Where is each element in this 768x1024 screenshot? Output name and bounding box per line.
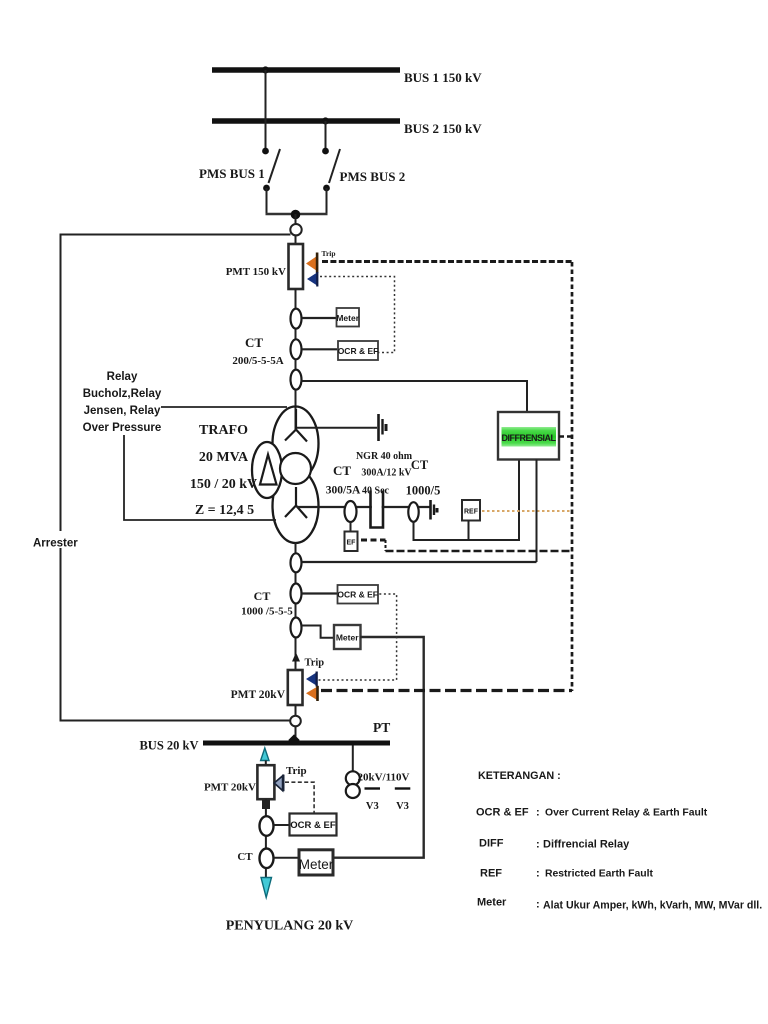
svg-text::: :: [536, 839, 540, 851]
svg-text:Meter: Meter: [477, 897, 507, 909]
svg-text:20kV/110V: 20kV/110V: [358, 772, 410, 784]
svg-text:CT: CT: [411, 458, 429, 472]
svg-text:Over Current Relay & Earth Fau: Over Current Relay & Earth Fault: [545, 808, 708, 819]
svg-text:300A/12 kV: 300A/12 kV: [361, 468, 412, 479]
svg-text:DIFFRENSIAL: DIFFRENSIAL: [502, 433, 557, 443]
svg-text:CT: CT: [333, 463, 351, 478]
svg-text:CT: CT: [254, 589, 271, 603]
svg-text:TRAFO: TRAFO: [199, 423, 248, 438]
svg-text:PMS BUS 2: PMS BUS 2: [340, 169, 406, 184]
svg-text:EF: EF: [347, 540, 357, 547]
svg-text:Meter: Meter: [336, 633, 359, 643]
svg-text:PMT 20kV: PMT 20kV: [204, 782, 256, 794]
svg-text:REF: REF: [464, 509, 479, 516]
svg-text:OCR & EF: OCR & EF: [476, 807, 529, 819]
svg-text:Alat Ukur Amper, kWh, kVarh, M: Alat Ukur Amper, kWh, kVarh, MW, MVar dl…: [543, 900, 762, 912]
svg-text:OCR & EF: OCR & EF: [337, 589, 378, 599]
svg-text:1000 /5-5-5: 1000 /5-5-5: [241, 606, 293, 618]
svg-text:KETERANGAN :: KETERANGAN :: [478, 770, 561, 782]
svg-text:Bucholz,Relay: Bucholz,Relay: [83, 388, 162, 400]
svg-text:Meter: Meter: [336, 313, 359, 323]
svg-text:Restricted Earth Fault: Restricted Earth Fault: [545, 869, 654, 880]
svg-text:Trip: Trip: [286, 765, 307, 777]
svg-text:150 / 20 kV: 150 / 20 kV: [190, 477, 257, 492]
svg-text:Trip: Trip: [322, 249, 336, 258]
svg-text:200/5-5-5A: 200/5-5-5A: [232, 355, 283, 367]
svg-text:PMS BUS 1: PMS BUS 1: [199, 166, 265, 181]
svg-text:PMT 20kV: PMT 20kV: [231, 689, 286, 701]
svg-text:PT: PT: [373, 720, 390, 735]
svg-text:Diffrencial Relay: Diffrencial Relay: [543, 839, 630, 851]
svg-text:PMT 150 kV: PMT 150 kV: [226, 266, 286, 278]
svg-text:PENYULANG 20 kV: PENYULANG 20 kV: [226, 919, 354, 934]
svg-text:Relay: Relay: [107, 371, 138, 383]
svg-text:REF: REF: [480, 868, 502, 880]
svg-text::: :: [536, 807, 540, 819]
svg-text:Arrester: Arrester: [33, 538, 78, 550]
svg-text:300/5A: 300/5A: [326, 485, 361, 497]
svg-text:1000/5: 1000/5: [406, 484, 441, 498]
svg-text:V3: V3: [396, 801, 409, 812]
svg-text:V3: V3: [366, 801, 379, 812]
svg-text:40 Sec: 40 Sec: [362, 486, 390, 497]
svg-text:Over Pressure: Over Pressure: [83, 422, 162, 434]
svg-text::: :: [536, 868, 540, 880]
svg-text:BUS 2 150 kV: BUS 2 150 kV: [404, 121, 482, 136]
svg-text:Z = 12,4 5: Z = 12,4 5: [195, 503, 254, 518]
svg-text:Jensen, Relay: Jensen, Relay: [84, 405, 161, 417]
svg-text:OCR & EF: OCR & EF: [290, 820, 336, 831]
svg-text:BUS 20 kV: BUS 20 kV: [139, 739, 198, 753]
svg-text:DIFF: DIFF: [479, 838, 504, 850]
svg-text:BUS 1 150 kV: BUS 1 150 kV: [404, 70, 482, 85]
svg-text:20 MVA: 20 MVA: [199, 450, 249, 465]
svg-text:CT: CT: [237, 851, 253, 863]
svg-text:NGR 40 ohm: NGR 40 ohm: [356, 451, 413, 462]
svg-text:OCR & EF: OCR & EF: [338, 346, 379, 356]
svg-text::: :: [536, 899, 540, 911]
svg-text:Trip: Trip: [305, 658, 325, 669]
svg-text:Meter: Meter: [299, 857, 334, 872]
svg-text:CT: CT: [245, 335, 263, 350]
